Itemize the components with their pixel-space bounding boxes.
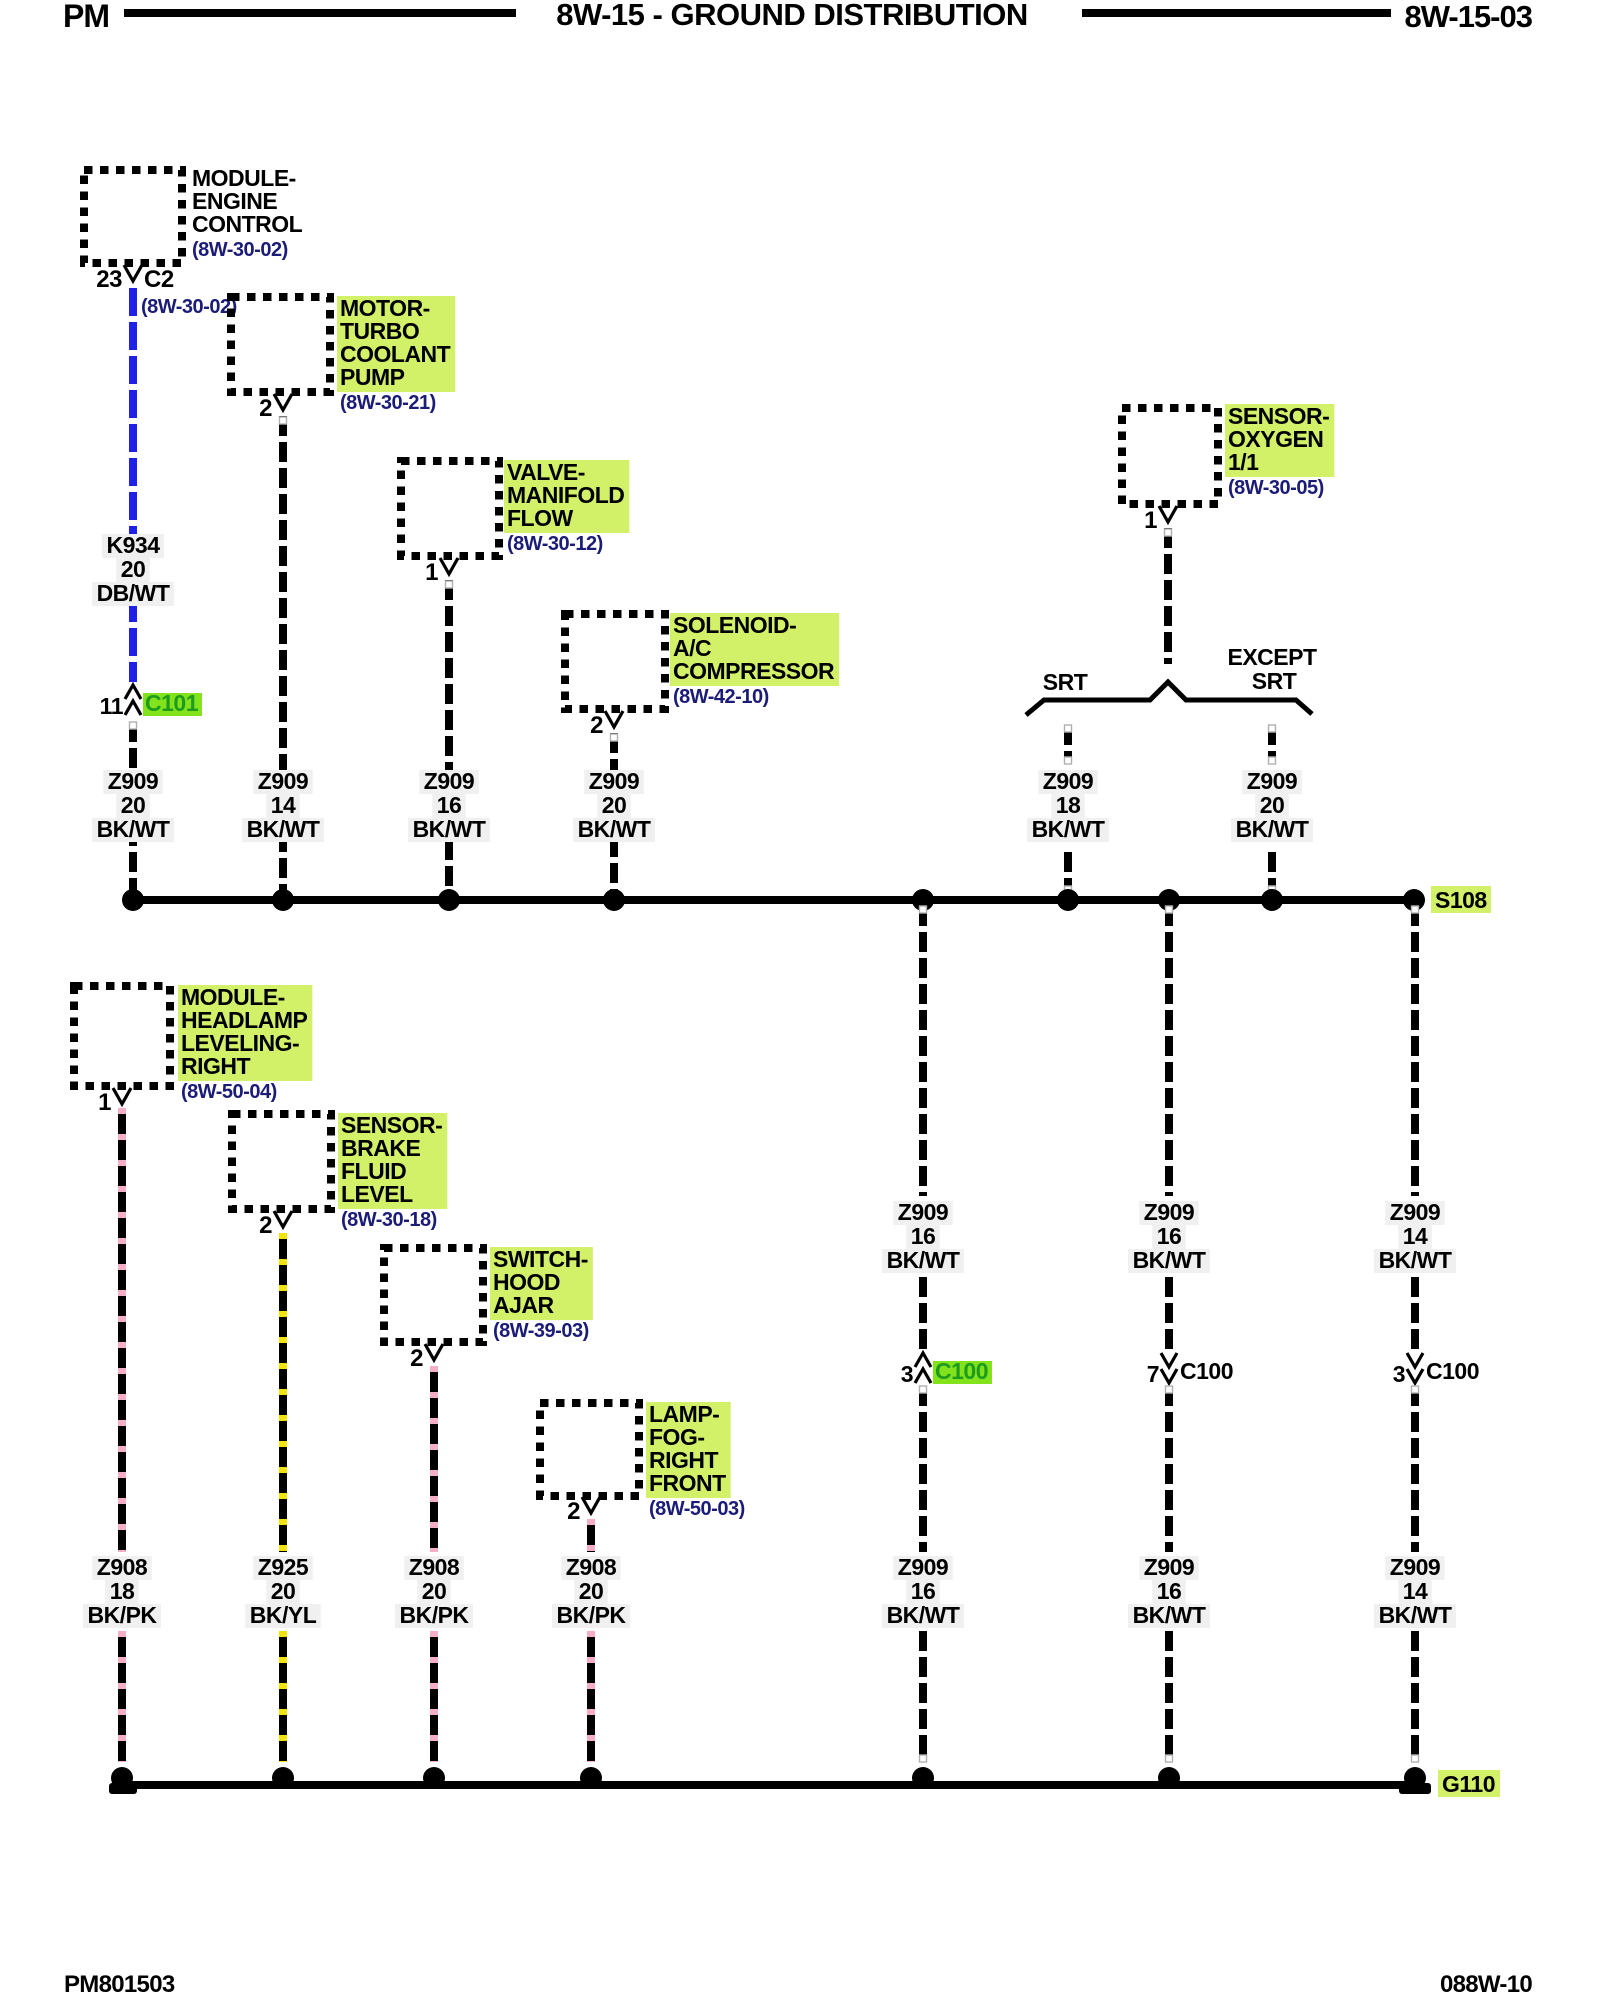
wire: EXCEPT SRT stub lower (1268, 852, 1276, 893)
junction dot S108 x=283 (272, 889, 294, 911)
component box: MODULE-ENGINE CONTROL (84, 170, 182, 263)
wire: Z909 14 BK/WT (279, 416, 287, 893)
svg-text:(8W-30-12): (8W-30-12) (507, 533, 603, 555)
component box: SENSOR-BRAKE FLUID LEVEL (232, 1114, 331, 1209)
junction bump G110 x=122 (111, 1767, 133, 1789)
svg-text:LEVEL: LEVEL (341, 1181, 413, 1207)
svg-text:3: 3 (901, 1361, 913, 1387)
svg-text:(8W-39-03): (8W-39-03) (493, 1320, 589, 1342)
inline connector C101 (125, 685, 141, 699)
svg-text:Z909: Z909 (1144, 1554, 1194, 1580)
svg-text:2: 2 (410, 1345, 423, 1372)
svg-text:20: 20 (1260, 792, 1285, 818)
svg-text:PUMP: PUMP (340, 364, 405, 390)
svg-text:2: 2 (259, 1212, 272, 1239)
wire label: Z909 16 BK/WT low x=1169 (1139, 1556, 1198, 1580)
header rule left (124, 9, 516, 17)
svg-text:088W-10: 088W-10 (1440, 1971, 1532, 1998)
wire: C100 to label x=923 (919, 1386, 927, 1552)
junction dot S108 x=133 (122, 889, 144, 911)
svg-text:20: 20 (121, 556, 146, 582)
svg-text:BK/YL: BK/YL (250, 1602, 317, 1628)
ground bus G110 (113, 1781, 1419, 1789)
label S108 (1431, 886, 1491, 913)
svg-text:2: 2 (590, 712, 603, 739)
svg-text:BK/WT: BK/WT (1032, 816, 1105, 842)
pin 2 (274, 1211, 292, 1227)
wire label: Z909 20 BK/WT (103, 770, 162, 794)
svg-text:BK/WT: BK/WT (887, 1247, 960, 1273)
component box: VALVE-MANIFOLD FLOW (401, 461, 499, 556)
svg-text:(8W-30-21): (8W-30-21) (340, 392, 436, 414)
svg-text:K934: K934 (107, 532, 161, 558)
svg-text:14: 14 (1403, 1223, 1428, 1249)
svg-text:Z909: Z909 (589, 768, 639, 794)
header rule right (1082, 9, 1391, 17)
pin 2 (425, 1344, 443, 1360)
label: SOLENOID-A/C COMPRESSOR (670, 613, 839, 686)
svg-text:14: 14 (1403, 1578, 1428, 1604)
wire: Z908 20 BK/PK fog lower (587, 1631, 595, 1762)
svg-text:20: 20 (422, 1578, 447, 1604)
svg-text:1: 1 (425, 559, 438, 586)
svg-text:18: 18 (1056, 792, 1081, 818)
svg-text:2: 2 (259, 395, 272, 422)
junction dot S108 x=449 (438, 889, 460, 911)
svg-text:C101: C101 (145, 690, 199, 716)
svg-text:EXCEPT: EXCEPT (1227, 644, 1316, 670)
wire: C100 to label x=1169 (1165, 1386, 1173, 1552)
svg-text:BK/WT: BK/WT (1133, 1602, 1206, 1628)
label: SENSOR-OXYGEN 1/1 (1225, 404, 1334, 477)
svg-text:7: 7 (1147, 1361, 1159, 1387)
wire: Z908 20 BK/PK fog (587, 1519, 595, 1552)
wire: SRT branch stub upper (1064, 725, 1072, 764)
component box: MODULE-HEADLAMP LEVELING-RIGHT (74, 986, 170, 1086)
svg-text:Z925: Z925 (258, 1554, 309, 1580)
svg-text:PM: PM (63, 0, 109, 34)
svg-text:FLOW: FLOW (507, 505, 573, 531)
wire: Z909 20 BK/WT lower (129, 722, 137, 893)
svg-text:(8W-42-10): (8W-42-10) (673, 686, 769, 708)
label: MODULE-ENGINE CONTROL (192, 165, 303, 237)
label G110 (1438, 1770, 1500, 1797)
junction bump G110 x=283 (272, 1767, 294, 1789)
pin 2 (582, 1497, 600, 1513)
wire: Z909 20 BK/WT col4 (610, 733, 618, 893)
svg-text:18: 18 (110, 1578, 135, 1604)
junction bump G110 x=591 (580, 1767, 602, 1789)
svg-text:Z909: Z909 (258, 768, 308, 794)
svg-text:CONTROL: CONTROL (192, 211, 303, 237)
svg-text:(8W-50-03): (8W-50-03) (649, 1498, 745, 1520)
wire: EXCEPT SRT stub upper (1268, 725, 1276, 764)
svg-text:G110: G110 (1442, 1771, 1495, 1797)
label: SWITCH-HOOD AJAR (490, 1247, 593, 1320)
svg-text:8W-15-03: 8W-15-03 (1405, 0, 1533, 34)
pin 1 (1159, 506, 1177, 522)
component box: MOTOR-TURBO COOLANT PUMP (231, 297, 330, 392)
inline connector C100 (1407, 1353, 1423, 1367)
junction dot S108 x=1272 (1261, 889, 1283, 911)
pin 23 connector C2 (124, 265, 142, 281)
junction dot S108 x=923 (912, 889, 934, 911)
svg-text:1/1: 1/1 (1228, 449, 1259, 475)
svg-text:C100: C100 (935, 1358, 988, 1384)
wire label: Z909 16 BK/WT mid x=1169 (1139, 1201, 1198, 1225)
wire: S108 to C100 upper x=923 (919, 906, 927, 1196)
svg-text:Z908: Z908 (409, 1554, 460, 1580)
junction bump G110 x=1169 (1158, 1767, 1180, 1789)
svg-text:C100: C100 (1426, 1358, 1479, 1384)
svg-text:DB/WT: DB/WT (97, 580, 170, 606)
svg-text:(8W-30-18): (8W-30-18) (341, 1209, 437, 1231)
wire label: Z909 16 BK/WT mid x=923 (893, 1201, 952, 1225)
label: LAMP-FOG-RIGHT FRONT (646, 1402, 731, 1498)
svg-text:(8W-30-02): (8W-30-02) (141, 296, 237, 318)
wire: oxygen sensor ground (1164, 528, 1172, 664)
svg-text:COMPRESSOR: COMPRESSOR (673, 658, 835, 684)
svg-text:BK/WT: BK/WT (247, 816, 320, 842)
wire: label to G110 x=923 (919, 1631, 927, 1762)
wire label: K934 20 DB/WT (102, 534, 164, 558)
wire: label to C100 x=1169 (1165, 1277, 1173, 1350)
svg-text:1: 1 (1144, 507, 1157, 534)
label: SENSOR-BRAKE FLUID LEVEL (338, 1113, 447, 1209)
wire label: Z909 20 BK/WT except (1242, 770, 1301, 794)
svg-text:Z909: Z909 (1390, 1199, 1440, 1225)
wire label: Z908 20 BK/PK fog (561, 1556, 620, 1580)
svg-text:16: 16 (1157, 1578, 1182, 1604)
wire: S108 to C100 upper x=1169 (1165, 906, 1173, 1196)
svg-text:16: 16 (437, 792, 462, 818)
wire: Z925 20 BK/YL lower (279, 1631, 287, 1762)
junction dot S108 x=1169 (1158, 889, 1180, 911)
svg-text:C2: C2 (144, 266, 174, 293)
wire label: Z909 14 BK/WT mid x=1415 (1385, 1201, 1444, 1225)
svg-text:C100: C100 (1180, 1358, 1233, 1384)
svg-text:BK/WT: BK/WT (578, 816, 651, 842)
wire label: Z909 16 BK/WT (419, 770, 478, 794)
svg-text:Z909: Z909 (424, 768, 474, 794)
wire: label to C100 x=1415 (1411, 1277, 1419, 1350)
svg-text:16: 16 (911, 1223, 936, 1249)
svg-text:20: 20 (271, 1578, 296, 1604)
svg-text:14: 14 (271, 792, 296, 818)
svg-text:BK/PK: BK/PK (556, 1602, 626, 1628)
svg-text:BK/WT: BK/WT (1133, 1247, 1206, 1273)
svg-text:SRT: SRT (1043, 669, 1088, 695)
svg-text:(8W-30-05): (8W-30-05) (1228, 477, 1324, 499)
junction bump G110 x=434 (423, 1767, 445, 1789)
svg-text:(8W-30-02): (8W-30-02) (192, 239, 288, 261)
label: VALVE-MANIFOLD FLOW (504, 460, 629, 533)
svg-text:Z909: Z909 (898, 1199, 948, 1225)
svg-text:BK/WT: BK/WT (413, 816, 486, 842)
wire: C100 to label x=1415 (1411, 1386, 1419, 1552)
wire label: Z908 18 BK/PK (92, 1556, 151, 1580)
svg-text:8W-15 - GROUND DISTRIBUTION: 8W-15 - GROUND DISTRIBUTION (556, 0, 1028, 32)
wire: Z908 20 BK/PK hood lower (430, 1631, 438, 1762)
component box: SOLENOID-A/C COMPRESSOR (565, 614, 665, 709)
svg-text:BK/WT: BK/WT (97, 816, 170, 842)
wire label: Z909 20 BK/WT col4 (584, 770, 643, 794)
wire label: Z909 14 BK/WT (253, 770, 312, 794)
svg-text:FRONT: FRONT (649, 1470, 726, 1496)
svg-text:BK/WT: BK/WT (1379, 1247, 1452, 1273)
svg-text:11: 11 (100, 693, 124, 719)
inline connector C100 (1161, 1353, 1177, 1367)
junction dot S108 x=614 (603, 889, 625, 911)
wire label: Z909 16 BK/WT low x=923 (893, 1556, 952, 1580)
component box: SENSOR-OXYGEN 1/1 (1122, 408, 1218, 504)
svg-text:BK/PK: BK/PK (399, 1602, 469, 1628)
svg-text:20: 20 (579, 1578, 604, 1604)
svg-text:20: 20 (602, 792, 627, 818)
branch brace SRT / EXCEPT SRT (1026, 682, 1312, 715)
wire label: Z908 20 BK/PK hood (404, 1556, 463, 1580)
wire: Z908 20 BK/PK hood (430, 1366, 438, 1552)
svg-text:1: 1 (98, 1089, 111, 1116)
svg-text:RIGHT: RIGHT (181, 1053, 251, 1079)
label: MODULE-HEADLAMP LEVELING-RIGHT (178, 985, 312, 1081)
svg-text:2: 2 (567, 1498, 580, 1525)
svg-text:Z909: Z909 (1247, 768, 1297, 794)
svg-text:Z908: Z908 (566, 1554, 617, 1580)
pin 1 (440, 558, 458, 574)
svg-text:3: 3 (1393, 1361, 1405, 1387)
svg-text:S108: S108 (1435, 887, 1487, 913)
svg-text:(8W-50-04): (8W-50-04) (181, 1081, 277, 1103)
svg-text:SRT: SRT (1252, 668, 1297, 694)
wire: Z908 18 BK/PK (118, 1108, 126, 1552)
component box: SWITCH-HOOD AJAR (384, 1248, 483, 1342)
junction bump G110 x=923 (912, 1767, 934, 1789)
svg-text:20: 20 (121, 792, 146, 818)
wire: S108 to C100 upper x=1415 (1411, 906, 1419, 1196)
junction dot S108 x=1414 (1403, 889, 1425, 911)
wire: label to C100 x=923 (919, 1277, 927, 1350)
wire label: Z909 14 BK/WT low x=1415 (1385, 1556, 1444, 1580)
inline connector C100 (915, 1353, 931, 1367)
svg-text:Z909: Z909 (108, 768, 158, 794)
svg-text:Z908: Z908 (97, 1554, 148, 1580)
svg-text:Z909: Z909 (1390, 1554, 1440, 1580)
splice bus S108 (132, 896, 1414, 904)
svg-text:23: 23 (96, 266, 122, 293)
wire: label to G110 x=1415 (1411, 1631, 1419, 1762)
pin 1 (113, 1088, 131, 1104)
wire: label to G110 x=1169 (1165, 1631, 1173, 1762)
wire label: Z909 18 BK/WT (1038, 770, 1097, 794)
pin 2 (605, 711, 623, 727)
svg-text:BK/WT: BK/WT (1236, 816, 1309, 842)
svg-text:BK/WT: BK/WT (887, 1602, 960, 1628)
junction bump G110 x=1415 (1404, 1767, 1426, 1789)
wire: K934 20 DB/WT (129, 288, 137, 682)
wire label: Z925 20 BK/YL (253, 1556, 312, 1580)
svg-text:BK/PK: BK/PK (87, 1602, 157, 1628)
svg-text:Z909: Z909 (1043, 768, 1093, 794)
pin 2 (274, 394, 292, 410)
label: MOTOR-TURBO COOLANT PUMP (337, 296, 455, 392)
wire: Z909 16 BK/WT (445, 580, 453, 893)
svg-text:16: 16 (911, 1578, 936, 1604)
svg-text:Z909: Z909 (1144, 1199, 1194, 1225)
junction dot S108 x=1068 (1057, 889, 1079, 911)
svg-text:AJAR: AJAR (493, 1292, 555, 1318)
component box: LAMP-FOG-RIGHT FRONT (540, 1403, 639, 1496)
svg-text:PM801503: PM801503 (64, 1971, 175, 1998)
svg-text:16: 16 (1157, 1223, 1182, 1249)
svg-text:Z909: Z909 (898, 1554, 948, 1580)
wire: Z908 18 BK/PK lower (118, 1631, 126, 1762)
svg-text:BK/WT: BK/WT (1379, 1602, 1452, 1628)
wire: SRT branch stub lower (1064, 852, 1072, 893)
wire: Z925 20 BK/YL (279, 1233, 287, 1552)
